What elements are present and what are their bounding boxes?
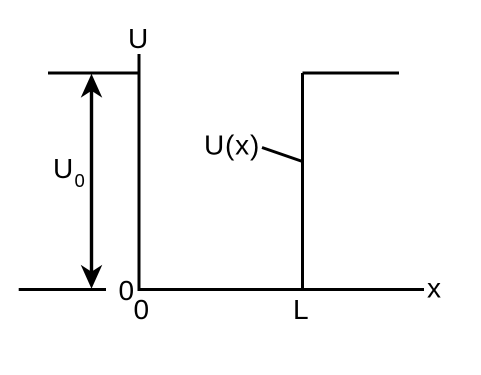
svg-text:0: 0	[75, 170, 85, 191]
svg-text:L: L	[293, 294, 309, 325]
label x (horizontal axis)	[427, 273, 441, 304]
label U(x) (potential function)	[204, 130, 260, 161]
U axis (vertical)	[138, 54, 141, 291]
svg-text:0: 0	[134, 294, 150, 325]
label 0 at origin below x axis	[134, 294, 150, 325]
svg-text:U(x): U(x)	[204, 130, 260, 161]
potential level line right of well	[303, 72, 400, 75]
potential barrier wall at x=L	[301, 73, 304, 291]
svg-text:0: 0	[119, 275, 135, 306]
leader line from U(x) label to barrier	[262, 148, 303, 162]
svg-text:x: x	[427, 273, 441, 304]
label 0 on U axis at baseline	[119, 275, 135, 306]
arrowhead up (at top potential level)	[81, 74, 103, 98]
svg-text:U: U	[128, 23, 148, 54]
label U0 (well depth)	[53, 153, 85, 191]
arrowhead down (at x axis)	[81, 265, 103, 289]
label U (vertical axis)	[128, 23, 148, 54]
potential level line left of well	[48, 72, 139, 75]
x axis left segment	[19, 288, 106, 291]
svg-text:U: U	[53, 153, 73, 184]
label L on x axis	[293, 294, 309, 325]
double arrow shaft for U0 height	[90, 87, 93, 275]
x axis main segment	[138, 288, 425, 291]
